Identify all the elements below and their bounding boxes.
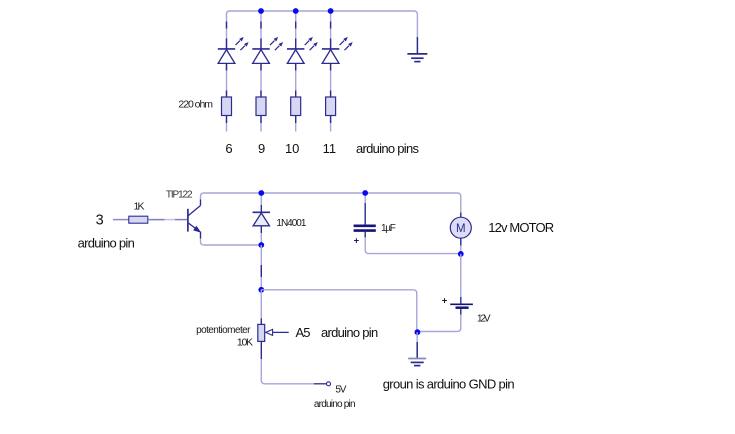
junction dot emitter/diode [258,242,264,248]
resistor 220 ohm (pin 11) [326,97,336,116]
svg-text:groun is arduino GND pin: groun is arduino GND pin [383,377,515,392]
wire pot bottom to 5V terminal [261,359,326,384]
LED D4 (pin 11) [322,37,353,64]
wire LED column (pin 9) [260,11,262,132]
wire pot node to ground junction [261,290,417,332]
svg-text:1N4001: 1N4001 [276,218,306,229]
transistor Q1 TIP122 [188,193,204,245]
junction dot rail/pin11 [328,8,334,14]
wire battery minus to ground junction [418,309,461,332]
svg-text:220 ohm: 220 ohm [178,98,213,110]
svg-text:arduino pin: arduino pin [314,399,356,410]
capacitor C1 1uF [354,193,461,254]
svg-text:potentiometer: potentiometer [196,325,251,336]
junction dot collector/capacitor [362,190,368,196]
battery B1 12V [442,295,473,307]
svg-text:12V: 12V [477,313,491,324]
wire R 1K to base [148,219,187,221]
wire motor bottom to battery [460,254,462,304]
svg-text:TIP122: TIP122 [166,190,193,201]
wire top rail (LED anode bus to ground) [227,11,418,37]
wire LED column (pin 10) [295,11,297,132]
svg-text:6: 6 [225,141,232,156]
wire emitter node down to pot junction [260,245,262,290]
svg-text:1K: 1K [134,201,145,213]
wire collector rail (y=193) [204,193,461,213]
svg-text:10K: 10K [237,336,253,348]
resistor R 1K [129,216,148,223]
wire pin3 to R 1K [113,219,129,221]
resistor 220 ohm (pin 6) [222,97,232,116]
diode D5 1N4001 [253,193,270,245]
ground (top right) [407,37,427,62]
wire LED column (pin 6) [226,13,228,132]
svg-text:11: 11 [323,141,337,156]
svg-text:M: M [456,223,466,235]
ground (bottom, arduino GND) [408,332,426,365]
junction dot ground node [415,329,421,335]
svg-text:12v MOTOR: 12v MOTOR [488,220,554,235]
svg-text:arduino pin: arduino pin [321,325,378,340]
svg-text:5V: 5V [335,384,346,395]
svg-text:9: 9 [258,141,265,156]
resistor 220 ohm (pin 10) [291,97,301,116]
junction dot rail/pin10 [293,8,299,14]
svg-text:3: 3 [96,212,104,228]
svg-text:arduino pins: arduino pins [356,141,420,156]
LED D3 (pin 10) [287,37,318,64]
resistor 220 ohm (pin 9) [256,97,266,116]
svg-text:arduino pin: arduino pin [78,236,135,251]
junction dot collector/diode [258,190,264,196]
junction dot motor/capacitor bottom [458,251,464,257]
svg-text:1µF: 1µF [381,223,396,234]
terminal 5V (open circle) [327,382,331,386]
svg-text:10: 10 [285,141,299,156]
wire LED column (pin 11) [330,11,332,132]
potentiometer wiper arrow to A5 [266,329,289,335]
svg-text:A5: A5 [296,325,311,340]
LED D2 (pin 9) [252,37,283,64]
potentiometer R5 10K [258,290,265,359]
junction dot pot node [258,287,264,293]
junction dot rail/pin9 [258,8,264,14]
svg-text:+: + [354,235,360,246]
svg-text:+: + [442,295,448,306]
LED D1 (pin 6) [218,37,249,64]
motor M1 [450,213,471,254]
wire emitter rail (y=245) [204,244,262,246]
